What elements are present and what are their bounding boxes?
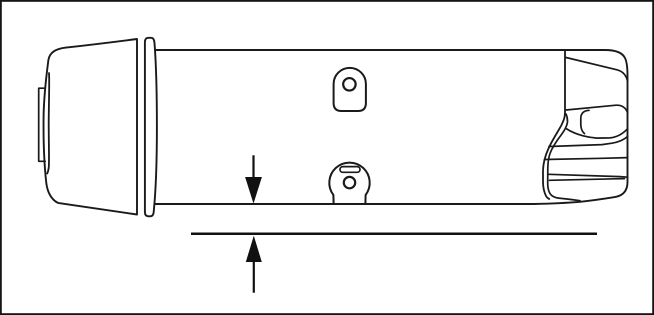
up arrowhead (246, 236, 262, 262)
cap inner line (47, 73, 49, 174)
bracket diagonal band (566, 58, 628, 82)
down arrow stem (252, 155, 254, 179)
up arrow stem (253, 261, 255, 293)
bracket line y110 (566, 105, 628, 112)
clamp inner curve (548, 114, 580, 201)
bracket inner box (581, 110, 589, 133)
bracket line y175 (549, 174, 628, 177)
body outline (151, 50, 628, 204)
bracket line y180 (550, 179, 625, 181)
mounting ring (145, 38, 157, 217)
lower tab slot (340, 167, 360, 173)
dimension line (191, 232, 597, 235)
bracket divider vertical + clamp outer S-curve (543, 50, 565, 199)
lower tab hole (344, 177, 355, 188)
cap body (44, 39, 137, 215)
upper tab hole (343, 78, 356, 91)
lower mounting tab (329, 163, 369, 204)
lens window rectangle (39, 88, 46, 161)
bracket line y146 (549, 137, 628, 147)
upper mounting tab (334, 68, 366, 111)
bracket line y160 (545, 158, 628, 160)
down arrowhead (245, 177, 262, 204)
bracket curl line into box bottom (566, 129, 628, 139)
